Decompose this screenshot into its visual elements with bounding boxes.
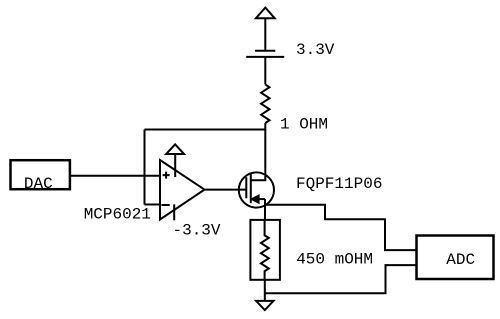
svg-text:450 mOHM: 450 mOHM — [296, 250, 373, 268]
op-amp negative supply stem — [173, 204, 175, 220]
wire battery to resistor R1 — [264, 57, 266, 85]
wire feedback to inverting input — [145, 204, 161, 206]
transistor Q1 source lead — [251, 198, 265, 200]
transistor Q1 FQPF11P06 body circle — [239, 172, 274, 207]
ADC block — [417, 236, 494, 280]
svg-text:-3.3V: -3.3V — [173, 221, 221, 239]
wire arrow to battery — [264, 18, 266, 51]
wire lower sense to ADC — [265, 265, 416, 293]
transistor Q1 gate bar — [245, 177, 247, 198]
wire op-amp output to gate — [205, 189, 247, 191]
svg-text:1 OHM: 1 OHM — [280, 116, 328, 134]
battery 3.3V bottom plate — [246, 56, 284, 58]
wire feedback vertical — [144, 130, 146, 205]
wire DAC to noninverting input — [70, 175, 160, 177]
svg-text:MCP6021: MCP6021 — [84, 206, 151, 224]
resistor R1 1 OHM zigzag — [261, 84, 269, 123]
wire R1 to drain node — [264, 123, 266, 131]
power symbol 3.3V arrow — [256, 8, 275, 19]
op-amp U1 triangle — [160, 160, 205, 220]
resistor R2 450 mOHM zigzag — [261, 220, 269, 281]
wire source down to R2 — [264, 199, 266, 220]
wire node to MOSFET drain — [251, 130, 265, 181]
ground symbol — [256, 301, 273, 310]
svg-text:ADC: ADC — [446, 251, 475, 269]
wire upper sense to ADC — [265, 205, 416, 250]
resistor R2 box — [250, 220, 280, 280]
wire bottom node — [264, 281, 266, 301]
battery 3.3V top plate — [255, 50, 275, 52]
op-amp positive supply power arrow — [166, 144, 184, 154]
op-amp positive supply stem — [174, 154, 176, 177]
DAC block — [11, 160, 70, 189]
svg-text:FQPF11P06: FQPF11P06 — [296, 175, 382, 193]
op-amp inverting input minus marker — [162, 204, 170, 206]
svg-text:3.3V: 3.3V — [296, 41, 335, 59]
transistor Q1 source arrow — [252, 196, 259, 203]
transistor Q1 channel bar — [250, 173, 252, 204]
op-amp noninverting input plus marker — [163, 172, 170, 179]
wire feedback top horizontal — [145, 129, 266, 131]
svg-text:DAC: DAC — [24, 175, 53, 193]
